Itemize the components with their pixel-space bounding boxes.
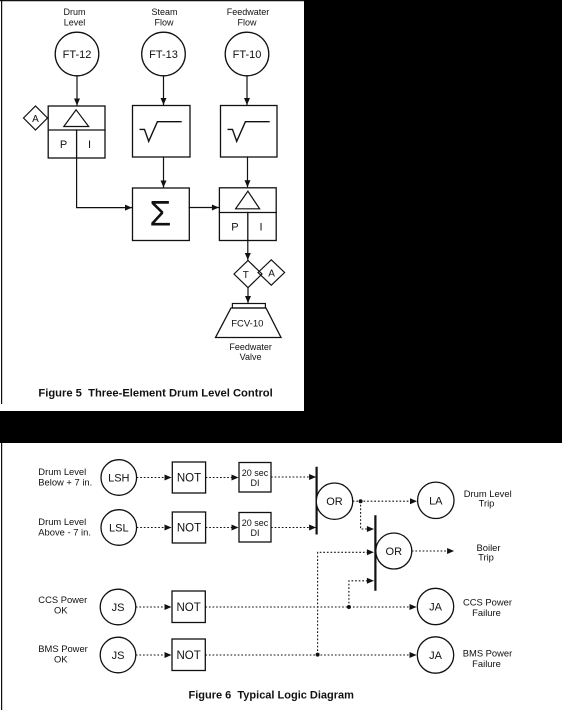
switch JS (BMS) (100, 637, 136, 673)
svg-text:A: A (268, 268, 275, 279)
wire FT-10 to sqrt extractor (246, 76, 248, 105)
svg-text:FT-12: FT-12 (63, 49, 92, 61)
alarm LA (418, 482, 454, 518)
svg-text:20 sec: 20 sec (242, 468, 269, 478)
alarm JA (CCS) (417, 588, 453, 624)
label: Feedwater Valve (229, 342, 272, 362)
wire NOT row3 to JA (CCS) (205, 606, 416, 608)
svg-text:JS: JS (112, 650, 125, 662)
wire OR1 branch down to OR2 bar (361, 501, 374, 529)
label: CCS Power OK (38, 594, 87, 616)
svg-text:P: P (231, 222, 238, 234)
svg-text:DI: DI (251, 478, 260, 488)
label: Drum Level (64, 7, 86, 28)
wire BMS branch up to OR2 bar middle (318, 552, 374, 654)
svg-text:Level: Level (64, 18, 86, 28)
svg-text:LSH: LSH (108, 473, 129, 485)
label: Feedwater Flow (227, 7, 270, 28)
wire NOT to 20sec DI row1 (206, 477, 238, 479)
label: Drum Level Below + 7 in. (38, 466, 92, 488)
triangle symbol in feedwater controller (236, 191, 260, 209)
NOT gate row1 (172, 462, 205, 493)
svg-text:Figure 5 Three-Element Drum L: Figure 5 Three-Element Drum Level Contro… (38, 388, 272, 400)
svg-text:JA: JA (429, 650, 443, 662)
svg-text:NOT: NOT (176, 650, 200, 662)
time delay 20 sec DI row2 (239, 513, 271, 543)
level controller box (triangle + P I) (48, 106, 105, 158)
figure 6 panel left black edge line (1, 443, 3, 710)
transmitter FT-12 (55, 32, 99, 76)
wire LSH to NOT (137, 477, 171, 479)
svg-text:Valve: Valve (240, 352, 262, 362)
wire DI row2 to OR1 bar (271, 527, 316, 529)
OR gate 1 (316, 483, 352, 519)
svg-text:Flow: Flow (154, 18, 174, 28)
sqrt symbol (feedwater flow) (228, 122, 269, 142)
svg-text:OR: OR (326, 496, 343, 508)
svg-text:20 sec: 20 sec (242, 518, 269, 528)
svg-text:Feedwater: Feedwater (227, 7, 270, 17)
wire CCS branch up to OR2 bar bottom (349, 581, 374, 607)
svg-text:Failure: Failure (472, 607, 501, 618)
svg-text:NOT: NOT (177, 523, 201, 535)
alarm JA (BMS) (417, 637, 453, 673)
wire summer to feedwater controller (189, 207, 218, 209)
svg-text:LSL: LSL (109, 523, 129, 535)
svg-text:Failure: Failure (472, 658, 501, 669)
sqrt symbol (steam flow) (140, 122, 181, 142)
transmitter FT-13 (142, 32, 186, 76)
svg-text:Feedwater: Feedwater (229, 342, 272, 352)
svg-text:A: A (32, 114, 39, 125)
wire OR2 output to Boiler Trip (412, 550, 454, 552)
svg-text:NOT: NOT (177, 473, 201, 485)
svg-text:Σ: Σ (149, 194, 171, 234)
NOT gate row3 (172, 591, 205, 623)
wire JS(BMS) to NOT (136, 654, 171, 656)
label: CCS Power Failure (463, 597, 512, 619)
sqrt extractor box (steam flow) (133, 106, 191, 158)
svg-text:NOT: NOT (176, 602, 200, 614)
figure 5 panel top black edge line (0, 0, 304, 2)
wire FT-12 to level controller (76, 76, 78, 105)
switch LSH (101, 460, 137, 496)
label: BMS Power OK (38, 643, 88, 665)
svg-text:P: P (60, 139, 67, 151)
wire T to valve (247, 288, 249, 303)
wire feedwater controller to T/A transfer (247, 241, 249, 260)
wire level controller to summer (77, 158, 132, 208)
switch LSL (101, 510, 137, 546)
OR1 input bar (316, 467, 318, 535)
wire sqrt(feedwater) to feedwater controller (247, 157, 249, 187)
svg-text:Trip: Trip (479, 498, 495, 509)
wire NOT to 20sec DI row2 (206, 527, 238, 529)
svg-text:FCV-10: FCV-10 (231, 319, 263, 330)
summer box (133, 188, 190, 241)
label: Boiler Trip (477, 542, 501, 563)
label: Drum Level Trip (464, 488, 512, 509)
svg-text:Steam: Steam (151, 7, 177, 17)
junction dot CCS row (347, 605, 351, 609)
svg-text:FT-13: FT-13 (149, 49, 178, 61)
svg-text:CCS Power: CCS Power (38, 594, 87, 605)
svg-text:BMS Power: BMS Power (38, 643, 88, 654)
diamond A (of transfer pair) (258, 260, 285, 285)
svg-text:Flow: Flow (237, 18, 257, 28)
junction dot OR1 output (359, 499, 363, 503)
switch JS (CCS) (100, 589, 136, 625)
transmitter FT-10 (225, 32, 269, 76)
svg-text:DI: DI (251, 528, 260, 538)
svg-text:Drum Level: Drum Level (38, 516, 86, 527)
svg-text:OK: OK (54, 654, 68, 665)
svg-text:OR: OR (386, 546, 403, 558)
svg-text:JS: JS (112, 602, 125, 614)
NOT gate row2 (172, 512, 205, 543)
svg-text:Trip: Trip (478, 552, 494, 563)
wire NOT row4 to JA (BMS) (205, 654, 416, 656)
svg-text:Drum Level: Drum Level (38, 466, 86, 477)
svg-text:LA: LA (429, 495, 443, 507)
wire sqrt(steam) to summer (163, 157, 165, 187)
valve FCV-10 body (trapezoid) (216, 308, 282, 338)
wire LSL to NOT (137, 527, 171, 529)
figure 5 white panel (0, 0, 304, 411)
diamond T (transfer) (234, 261, 262, 288)
svg-text:OK: OK (54, 605, 68, 616)
wire DI row1 to OR1 bar (271, 476, 316, 478)
svg-text:Above - 7 in.: Above - 7 in. (38, 527, 91, 538)
svg-text:Drum: Drum (64, 7, 86, 17)
svg-text:Below + 7 in.: Below + 7 in. (38, 477, 92, 488)
feedwater controller box (triangle + P I) (219, 188, 276, 241)
NOT gate row4 (172, 639, 205, 671)
svg-text:I: I (88, 139, 91, 151)
label: BMS Power Failure (463, 648, 513, 670)
svg-text:Figure 6 Typical Logic Diagra: Figure 6 Typical Logic Diagram (189, 690, 355, 702)
time delay 20 sec DI row1 (239, 463, 271, 493)
figure 6 white panel (0, 443, 562, 721)
wire JS(CCS) to NOT (136, 606, 171, 608)
valve actuator plate (232, 304, 265, 309)
sqrt extractor box (feedwater flow) (221, 106, 278, 158)
svg-text:JA: JA (429, 602, 443, 614)
figure 5 panel left black edge line (1, 0, 3, 404)
label: Steam Flow (151, 7, 177, 28)
svg-text:CCS Power: CCS Power (463, 597, 512, 608)
OR gate 2 (376, 533, 412, 569)
label: Drum Level Above - 7 in. (38, 516, 91, 538)
svg-text:T: T (243, 270, 249, 281)
wire FT-13 to sqrt extractor (163, 76, 165, 105)
triangle symbol in level controller (64, 110, 89, 127)
junction dot BMS row (316, 653, 320, 657)
svg-text:BMS Power: BMS Power (463, 648, 513, 659)
OR2 input bar (374, 515, 376, 591)
wire OR1 to LA (353, 500, 417, 502)
diamond A (auto) on level controller (24, 106, 48, 130)
svg-text:FT-10: FT-10 (233, 49, 262, 61)
svg-text:I: I (259, 222, 262, 234)
